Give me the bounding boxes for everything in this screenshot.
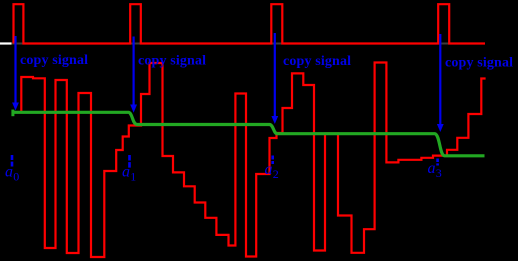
arrow copy 3 stem bbox=[274, 33, 276, 117]
arrow copy 1 head bbox=[12, 103, 19, 111]
wire gray baseline under clock pulse 4 bbox=[438, 43, 449, 45]
arrow copy 4 stem bbox=[439, 34, 441, 125]
arrow copy 2 stem bbox=[133, 37, 135, 106]
tick a3 bbox=[436, 159, 439, 166]
tick a0 bbox=[11, 155, 14, 167]
wire green sampled output signal bbox=[13, 112, 485, 156]
svg-text:copy signal: copy signal bbox=[283, 54, 351, 69]
svg-text:copy signal: copy signal bbox=[445, 56, 513, 71]
svg-text:copy signal: copy signal bbox=[138, 54, 206, 69]
node green start tick bbox=[11, 110, 14, 117]
arrow copy 1 stem bbox=[14, 36, 16, 104]
wire gray baseline under clock pulse 3 bbox=[271, 43, 282, 45]
wire white start segment of clock baseline bbox=[0, 42, 12, 44]
arrow copy 2 head bbox=[130, 105, 137, 113]
arrow copy 3 head bbox=[271, 116, 278, 124]
tick a1 bbox=[128, 155, 131, 168]
wire red clock signal with 4 pulses bbox=[14, 4, 486, 43]
wire gray baseline under clock pulse 2 bbox=[130, 43, 141, 45]
svg-text:copy signal: copy signal bbox=[20, 53, 88, 68]
wire gray baseline under clock pulse 1 bbox=[12, 43, 24, 45]
tick a2 bbox=[271, 156, 274, 165]
arrow copy 4 head bbox=[437, 124, 444, 132]
wire red noisy input signal bbox=[13, 63, 486, 258]
